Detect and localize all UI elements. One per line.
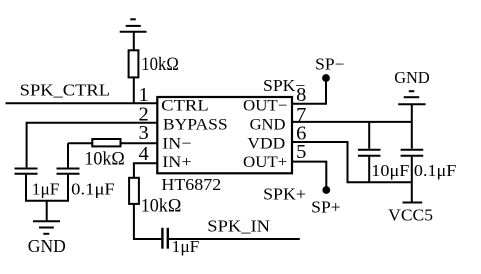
svg-text:GND: GND bbox=[394, 68, 430, 87]
svg-text:SPK+: SPK+ bbox=[263, 185, 306, 204]
svg-text:10μF: 10μF bbox=[371, 161, 409, 180]
svg-text:0.1μF: 0.1μF bbox=[71, 180, 115, 199]
svg-text:10kΩ: 10kΩ bbox=[141, 55, 179, 75]
svg-text:GND: GND bbox=[250, 116, 286, 133]
svg-text:CTRL: CTRL bbox=[161, 98, 209, 115]
svg-text:1μF: 1μF bbox=[32, 180, 60, 199]
svg-text:IN−: IN− bbox=[162, 136, 191, 153]
svg-text:VDD: VDD bbox=[247, 136, 285, 153]
svg-text:VCC5: VCC5 bbox=[388, 206, 433, 225]
svg-text:OUT+: OUT+ bbox=[243, 154, 287, 171]
svg-text:10kΩ: 10kΩ bbox=[84, 150, 124, 170]
svg-text:0.1μF: 0.1μF bbox=[414, 161, 456, 180]
svg-text:SP−: SP− bbox=[315, 54, 344, 73]
svg-text:SPK_IN: SPK_IN bbox=[207, 217, 270, 236]
svg-text:4: 4 bbox=[138, 143, 148, 165]
svg-text:IN+: IN+ bbox=[162, 154, 191, 171]
svg-text:5: 5 bbox=[296, 141, 306, 163]
svg-text:OUT−: OUT− bbox=[243, 98, 287, 115]
svg-text:HT6872: HT6872 bbox=[161, 175, 221, 194]
svg-text:SP+: SP+ bbox=[311, 197, 341, 216]
svg-text:1μF: 1μF bbox=[172, 237, 200, 256]
svg-text:SPK_CTRL: SPK_CTRL bbox=[20, 80, 110, 99]
svg-text:3: 3 bbox=[138, 122, 148, 144]
svg-text:BYPASS: BYPASS bbox=[163, 116, 228, 133]
svg-text:10kΩ: 10kΩ bbox=[141, 196, 182, 216]
svg-text:8: 8 bbox=[296, 84, 306, 106]
svg-text:GND: GND bbox=[28, 236, 66, 256]
